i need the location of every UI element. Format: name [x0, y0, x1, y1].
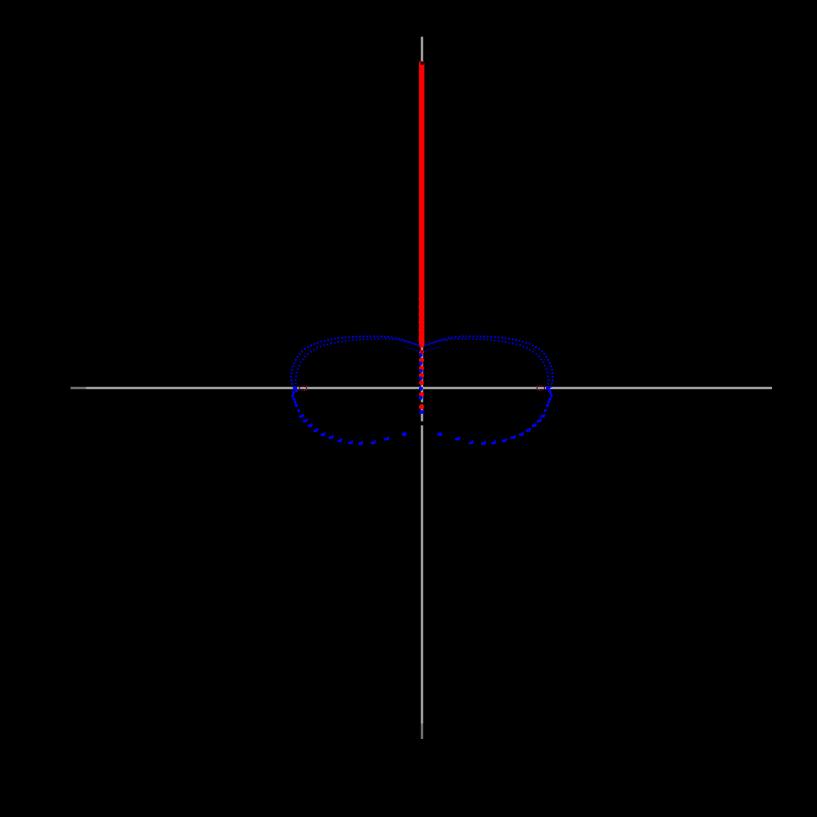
red eigenvalue column (dense overlapping dots): [419, 61, 424, 348]
blue upper outer dotted arc (left): [290, 335, 420, 388]
black gap marker on y-axis (lower): [420, 421, 424, 425]
blue dots on imaginary axis: [419, 353, 424, 414]
navy faint dots between arcs: [293, 338, 552, 389]
blue lower lobe dotted arc (right half): [437, 386, 552, 445]
red column left-edge scallop bumps: [419, 296, 425, 348]
blue upper inner dotted arc (left): [295, 338, 419, 388]
blue upper inner dotted arc (right): [425, 338, 549, 388]
black marker dot at top of red column: [421, 62, 424, 65]
x-axis main gray line: [86, 387, 772, 389]
y-axis main gray line: [421, 37, 423, 724]
blue lower lobe dotted arc (left half): [291, 386, 406, 445]
x-axis dark left segment: [71, 387, 87, 389]
discrete red dots near origin: [419, 350, 424, 410]
darkred ellipse marker at -1: [299, 386, 307, 391]
darkred ellipse marker at +1: [537, 386, 545, 391]
black gap marker on y-axis (upper): [420, 402, 424, 404]
y-axis dark bottom segment: [421, 724, 423, 740]
blue upper outer dotted arc (right): [424, 335, 554, 388]
navy center V: [403, 346, 441, 352]
